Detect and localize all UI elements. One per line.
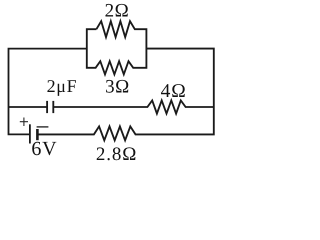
wire middle rail left of capacitor — [9, 106, 48, 108]
battery V1 6V long positive plate — [29, 124, 31, 143]
battery V1 6V short negative plate — [36, 129, 39, 140]
svg-text:4Ω: 4Ω — [161, 81, 187, 102]
wire bottom rail with resistor R4 2.8ohm zigzag + right vertical + top rail right — [37, 49, 213, 141]
wire middle rail with resistor R3 4ohm zigzag — [53, 100, 214, 113]
svg-text:3Ω: 3Ω — [105, 76, 130, 97]
wire top rail left + left vertical + bottom rail to battery — [9, 49, 87, 135]
label minus sign — [37, 126, 49, 128]
svg-text:2Ω: 2Ω — [105, 1, 130, 22]
label plus sign — [20, 118, 28, 127]
capacitor C1 2uF right plate — [52, 101, 54, 113]
svg-text:2.8Ω: 2.8Ω — [96, 144, 137, 165]
parallel box with resistor R1 2ohm (top) and resistor R2 3ohm (bottom) — [87, 21, 147, 74]
svg-text:6V: 6V — [31, 138, 57, 160]
svg-text:2μF: 2μF — [47, 76, 78, 96]
capacitor C1 2uF left plate — [46, 101, 48, 113]
